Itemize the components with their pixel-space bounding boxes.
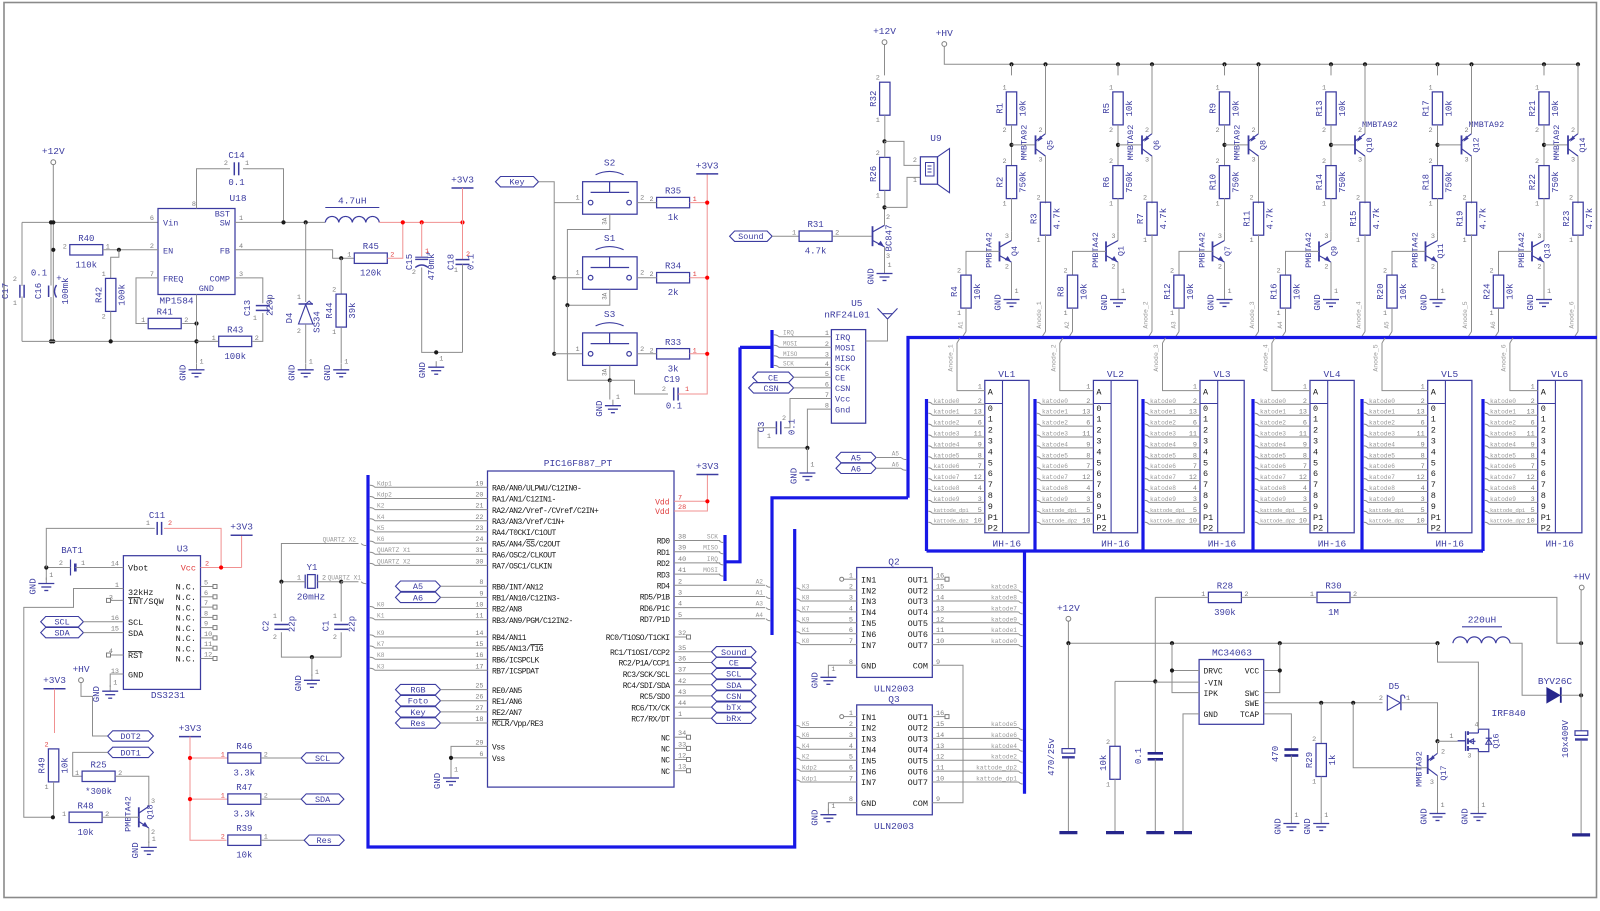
svg-text:Q10: Q10: [1365, 137, 1375, 152]
wire BYV26C to +HV node: [1561, 694, 1581, 696]
capacitor C1 22p: [334, 624, 348, 626]
wire katode4 to VL1: [928, 446, 932, 448]
wire net QUARTZ X2 from bus to pin 30: [370, 563, 375, 565]
wire C3 to gnd node: [758, 428, 807, 448]
svg-text:0: 0: [1096, 404, 1101, 414]
svg-text:0: 0: [1313, 404, 1318, 414]
svg-text:katode3: katode3: [1260, 431, 1286, 438]
ground under PIC: [450, 772, 452, 778]
svg-text:2: 2: [45, 741, 49, 749]
svg-text:1: 1: [1294, 812, 1298, 820]
resistor R12: [1174, 275, 1184, 308]
svg-text:Vcc: Vcc: [181, 564, 196, 574]
power port +12V (sound): [882, 40, 887, 45]
svg-text:1: 1: [1356, 237, 1360, 245]
svg-text:GND: GND: [131, 842, 141, 858]
svg-text:4: 4: [1313, 447, 1318, 457]
wire katode9 to VL6: [1485, 500, 1489, 502]
svg-text:1: 1: [1535, 84, 1539, 92]
svg-text:R16: R16: [1270, 283, 1280, 299]
svg-text:+HV: +HV: [936, 28, 953, 39]
svg-text:100k: 100k: [224, 352, 246, 362]
node +12V input rail wire: [22, 221, 158, 223]
svg-text:RC1/T1OSI/CCP2: RC1/T1OSI/CCP2: [610, 649, 670, 658]
junction +12V/L2: [1435, 641, 1439, 645]
svg-text:12: 12: [974, 474, 982, 482]
junction HV rail col 3: [1222, 62, 1226, 66]
junction HV rail emitter col 5: [1469, 62, 1473, 66]
resistor R14: [1326, 166, 1336, 199]
svg-text:1: 1: [49, 572, 53, 580]
net tag SCL (RTC): [41, 617, 84, 627]
svg-text:RC2/P1A/CCP1: RC2/P1A/CCP1: [618, 660, 670, 669]
svg-text:P2: P2: [1431, 524, 1441, 534]
svg-text:ИН-16: ИН-16: [1318, 539, 1347, 550]
resistor R9: [1219, 92, 1229, 125]
resistor R39: [228, 835, 261, 845]
svg-text:RB1/AN10/C12IN3-: RB1/AN10/C12IN3-: [492, 595, 560, 604]
svg-text:RB0/INT/AN12: RB0/INT/AN12: [492, 583, 544, 592]
svg-text:P1: P1: [1541, 513, 1551, 523]
wire Q3 OUT7 to kattode_dp1: [932, 781, 1018, 783]
junction +12V/DRVC: [1170, 641, 1174, 645]
svg-text:katode0: katode0: [1260, 398, 1286, 405]
wire Sound to R31: [772, 235, 799, 237]
wire katode6 to VL6: [1485, 468, 1489, 470]
svg-text:*300k: *300k: [85, 787, 112, 797]
wire katode6 to VL5: [1364, 468, 1368, 470]
svg-text:2: 2: [102, 313, 106, 321]
svg-text:9: 9: [1096, 502, 1101, 512]
svg-text:4: 4: [1541, 447, 1546, 457]
wire DRVC/IPK to +12V: [1172, 643, 1199, 670]
svg-text:1: 1: [315, 669, 319, 677]
svg-text:2: 2: [1537, 264, 1541, 272]
svg-text:kattode_dp2: kattode_dp2: [1150, 518, 1186, 525]
svg-text:MMBTA92: MMBTA92: [1469, 120, 1505, 130]
svg-text:katode6: katode6: [1150, 463, 1176, 470]
svg-text:R15: R15: [1349, 211, 1359, 227]
svg-text:kattode_dp1: kattode_dp1: [976, 776, 1017, 783]
wire katode7 to VL3: [1145, 479, 1149, 481]
svg-text:Q14: Q14: [1578, 137, 1588, 152]
svg-text:1: 1: [831, 803, 835, 811]
wire net Kdp1 from bus to pin 19: [370, 485, 375, 487]
svg-text:VL6: VL6: [1551, 369, 1568, 380]
svg-text:P2: P2: [1541, 524, 1551, 534]
resistor R29: [1316, 744, 1326, 777]
svg-text:1: 1: [1441, 802, 1445, 810]
wire K1 to Q2 IN6: [797, 632, 801, 634]
svg-text:PIC16F887_PT: PIC16F887_PT: [544, 458, 613, 469]
svg-text:1: 1: [1193, 384, 1197, 392]
svg-text:GND: GND: [323, 365, 333, 381]
wire: [190, 737, 227, 841]
svg-text:Q9: Q9: [1330, 246, 1340, 256]
wire K0 to Q2 IN7: [797, 643, 801, 645]
net tag SDA (pullup): [301, 794, 344, 804]
svg-text:ИН-16: ИН-16: [1545, 539, 1574, 550]
svg-text:R10: R10: [1209, 174, 1219, 190]
wire R31 to BC847 base: [833, 235, 872, 237]
svg-text:katode9: katode9: [1150, 496, 1176, 503]
svg-text:VL1: VL1: [998, 369, 1015, 380]
wire katode5 to VL3: [1145, 457, 1149, 459]
svg-text:1: 1: [957, 310, 961, 318]
transistor Q14 MMBTA92 pnp: [1567, 135, 1569, 154]
svg-text:SWC: SWC: [1245, 690, 1260, 699]
svg-text:2: 2: [1002, 158, 1006, 166]
svg-text:P2: P2: [1203, 524, 1213, 534]
wire CE to U5: [794, 376, 832, 378]
junction feedback/+HV: [1579, 641, 1583, 645]
ground col 1: [1011, 294, 1013, 300]
svg-text:RB5/AN13/T1G: RB5/AN13/T1G: [492, 645, 544, 654]
wire HV to R17: [1437, 64, 1439, 75]
wire katode8 to VL5: [1364, 490, 1368, 492]
svg-text:Q7: Q7: [1223, 246, 1233, 256]
net tag DOT2: [108, 731, 154, 741]
svg-text:2: 2: [466, 251, 470, 259]
wire katode3 to VL3: [1145, 435, 1149, 437]
wire U18 gnd pin down: [196, 295, 198, 364]
svg-text:Q6: Q6: [1152, 140, 1162, 150]
wire katode5 to VL4: [1255, 457, 1259, 459]
wire R19 to bus (Anode_5): [1471, 234, 1473, 331]
svg-text:1: 1: [1121, 288, 1125, 296]
wire BC847 collector: [884, 207, 886, 225]
resistor R24: [1493, 275, 1503, 308]
svg-text:2: 2: [988, 426, 993, 436]
svg-text:A3: A3: [756, 601, 764, 608]
svg-text:R21: R21: [1528, 100, 1538, 116]
svg-text:RD6/P1C: RD6/P1C: [640, 605, 671, 614]
svg-text:3: 3: [1324, 233, 1328, 241]
wire quartz X1 net: [341, 581, 358, 583]
wire Q7 emitter to gnd: [1224, 262, 1226, 296]
svg-text:5: 5: [988, 458, 993, 468]
nixie tube VL3 IN-16 body: [1200, 380, 1244, 532]
wire: [54, 689, 56, 733]
inductor L1 4.7uH: [325, 216, 379, 222]
wire R4 to bus (A1): [965, 308, 967, 331]
svg-text:13: 13: [111, 668, 119, 676]
wire BAT1 to Vbot: [75, 567, 123, 569]
svg-text:P1: P1: [988, 513, 998, 523]
svg-text:MCLR/Vpp/RE3: MCLR/Vpp/RE3: [492, 720, 544, 729]
svg-text:6: 6: [1531, 420, 1535, 428]
wire gate node to Q16 gate: [1438, 740, 1458, 742]
svg-text:MMBTA92: MMBTA92: [1362, 120, 1398, 130]
wire Q2 OUT3 to katode8: [932, 600, 1018, 602]
transistor Q7 PMBTA42 npn: [1212, 241, 1214, 261]
svg-text:OUT6: OUT6: [908, 630, 928, 640]
ground bar under MC34063: [1174, 831, 1192, 834]
svg-text:1: 1: [1322, 84, 1326, 92]
svg-text:R14: R14: [1315, 174, 1325, 190]
svg-text:2: 2: [333, 634, 337, 642]
wire katode3 to VL4: [1255, 435, 1259, 437]
wire anode Anode_6 to VL6: [1510, 338, 1513, 343]
svg-text:1: 1: [1015, 288, 1019, 296]
svg-text:1: 1: [297, 294, 301, 302]
wire katode5 to VL5: [1364, 457, 1368, 459]
svg-text:Vdd: Vdd: [655, 508, 670, 517]
net tag Key (switch column): [496, 177, 539, 187]
svg-text:RC0/T1OSO/T1CKI: RC0/T1OSO/T1CKI: [606, 634, 670, 643]
transistor Q11 PMBTA42 npn: [1425, 241, 1427, 261]
wire Gnd pin8: [807, 409, 831, 448]
svg-text:katode8: katode8: [1042, 485, 1068, 492]
svg-text:220uH: 220uH: [1468, 615, 1497, 626]
svg-text:Q11: Q11: [1436, 243, 1446, 258]
svg-text:1: 1: [616, 394, 620, 402]
svg-text:bRx: bRx: [726, 714, 741, 724]
svg-text:R47: R47: [236, 783, 252, 793]
resistor R11: [1253, 202, 1263, 235]
svg-text:+3V3: +3V3: [451, 175, 474, 186]
wire COMP to C13: [235, 278, 263, 303]
resistor R31: [799, 231, 832, 241]
svg-text:9: 9: [1303, 441, 1307, 449]
wire Q3 OUT6 to kattode_dp2: [932, 770, 1018, 772]
resistor R17: [1432, 92, 1442, 125]
svg-text:6: 6: [204, 590, 208, 598]
resistor R3: [1040, 202, 1050, 235]
ground under R44: [340, 364, 342, 370]
svg-text:Kdp2: Kdp2: [802, 765, 817, 772]
svg-text:A6: A6: [851, 464, 861, 474]
wire MC34063 GND: [1183, 714, 1199, 832]
diode D5: [1387, 695, 1400, 710]
svg-text:CE: CE: [768, 373, 778, 383]
svg-text:1: 1: [245, 160, 249, 168]
svg-text:1: 1: [913, 177, 917, 185]
svg-text:3: 3: [1467, 753, 1471, 761]
svg-text:1: 1: [253, 315, 257, 323]
resistor R46: [228, 753, 261, 763]
svg-text:1: 1: [75, 770, 79, 778]
svg-text:GND: GND: [418, 362, 428, 378]
svg-text:R44: R44: [325, 302, 335, 318]
svg-text:katode1: katode1: [1490, 409, 1516, 416]
svg-text:SCL: SCL: [315, 754, 330, 764]
ground under Q2: [827, 671, 829, 677]
wire HV to R9: [1224, 64, 1226, 75]
svg-text:nRF24L01: nRF24L01: [824, 310, 870, 321]
resistor R2: [1006, 166, 1016, 199]
svg-text:R4: R4: [950, 286, 960, 297]
svg-text:Anode_3: Anode_3: [1249, 301, 1256, 328]
resistor R41: [148, 318, 181, 328]
wire katode6 to VL3: [1145, 468, 1149, 470]
wire kattode_dp1 to VL2: [1037, 511, 1041, 513]
svg-text:2: 2: [1276, 268, 1280, 276]
svg-text:+HV: +HV: [72, 664, 89, 675]
svg-text:2: 2: [662, 386, 666, 394]
svg-text:CE: CE: [729, 659, 739, 669]
svg-text:BAT1: BAT1: [61, 546, 83, 556]
svg-text:1: 1: [1383, 310, 1387, 318]
wire net IRQ pin 40 to SPI bus: [674, 562, 720, 564]
wire Q3 OUT3 to katode6: [932, 737, 1018, 739]
wire katode0 to VL1: [928, 402, 932, 404]
svg-text:IN2: IN2: [861, 724, 876, 734]
svg-text:K1: K1: [802, 627, 810, 634]
transistor Q9 PMBTA42 npn: [1318, 241, 1320, 261]
svg-text:1: 1: [1541, 415, 1546, 425]
junction switch commons: [608, 378, 612, 382]
svg-text:1: 1: [876, 117, 880, 125]
svg-text:7: 7: [1541, 480, 1546, 490]
svg-text:IN6: IN6: [861, 767, 876, 777]
mcu U1 PIC16F887_PT ic body: [488, 471, 675, 787]
svg-text:1: 1: [221, 752, 225, 760]
svg-text:13: 13: [974, 409, 982, 417]
svg-text:1: 1: [1109, 84, 1113, 92]
svg-text:2: 2: [1215, 127, 1219, 135]
wire net A1 pin 3 to A bus: [674, 596, 765, 598]
nixie tube VL1 IN-16 body: [985, 380, 1029, 532]
resistor R15: [1360, 202, 1370, 235]
wire net K0 from bus to pin 10: [370, 607, 375, 609]
svg-text:Q5: Q5: [1046, 140, 1056, 150]
svg-text:2: 2: [876, 75, 880, 83]
svg-text:4.7k: 4.7k: [1159, 208, 1169, 230]
wire katode9 to VL1: [928, 500, 932, 502]
svg-text:10k: 10k: [77, 828, 93, 838]
junction R26/BC847/speaker: [882, 205, 886, 209]
wire net K5 from bus to pin 23: [370, 530, 375, 532]
svg-text:5: 5: [1193, 507, 1197, 515]
svg-text:P2: P2: [988, 524, 998, 534]
svg-text:1: 1: [81, 560, 85, 568]
svg-text:1: 1: [454, 267, 458, 275]
svg-text:R12: R12: [1163, 283, 1173, 299]
svg-text:Y1: Y1: [307, 563, 318, 573]
wire kattode_dp2 to VL3: [1145, 522, 1149, 524]
svg-text:+3V3: +3V3: [696, 461, 719, 472]
svg-text:A: A: [988, 388, 994, 398]
svg-text:IN7: IN7: [861, 641, 876, 651]
svg-text:2k: 2k: [668, 288, 679, 298]
capacitor C3 0.1: [775, 421, 777, 434]
nixie tube VL2 IN-16 body: [1093, 380, 1137, 532]
svg-text:katode7: katode7: [1260, 474, 1286, 481]
net tag SDA at pin 42: [674, 684, 712, 686]
svg-text:katode6: katode6: [1260, 463, 1286, 470]
svg-text:3.3k: 3.3k: [233, 769, 255, 779]
svg-text:S1: S1: [604, 233, 616, 244]
resistor R7: [1147, 202, 1157, 235]
ground col 6: [1543, 294, 1545, 300]
svg-text:120k: 120k: [360, 269, 382, 279]
svg-text:OUT6: OUT6: [908, 767, 928, 777]
wire base feed R20: [1392, 251, 1426, 275]
wire Q3 IN1 nc stub: [844, 716, 857, 718]
wire Q2 OUT5 to katode9: [932, 622, 1018, 624]
svg-text:+3V3: +3V3: [230, 522, 253, 533]
svg-text:K3: K3: [802, 584, 810, 591]
transistor BC847 npn: [872, 226, 874, 246]
svg-text:Kdp1: Kdp1: [377, 480, 392, 487]
svg-text:C11: C11: [149, 511, 165, 521]
svg-text:R13: R13: [1315, 100, 1325, 116]
svg-text:Q18: Q18: [146, 804, 156, 819]
wire R41 to gnd node: [182, 323, 196, 325]
wire speaker pin1: [885, 177, 921, 207]
ground under U5: [806, 467, 808, 473]
svg-text:kattode_dp2: kattode_dp2: [976, 765, 1017, 772]
wire Q9 emitter to gnd: [1330, 262, 1332, 296]
svg-text:20mHz: 20mHz: [297, 592, 326, 603]
wire Q8 emitter to rail: [1258, 64, 1260, 133]
wire R21 to base node: [1543, 125, 1545, 166]
svg-text:470: 470: [1271, 746, 1281, 762]
net tag A5: [396, 581, 441, 591]
wire C2 to gnd rail: [281, 632, 341, 657]
svg-text:A5: A5: [413, 582, 423, 592]
svg-text:+3V3: +3V3: [696, 160, 719, 171]
wire katode1 to VL3: [1145, 413, 1149, 415]
svg-text:5: 5: [1313, 458, 1318, 468]
svg-text:11: 11: [1299, 431, 1307, 439]
svg-text:IN6: IN6: [861, 630, 876, 640]
svg-text:OUT1: OUT1: [908, 575, 928, 585]
svg-text:1: 1: [1036, 237, 1040, 245]
wire Q8 collector to R11: [1258, 156, 1260, 203]
wire base feed R16: [1286, 251, 1320, 275]
svg-text:OUT4: OUT4: [908, 608, 928, 618]
svg-text:1: 1: [576, 346, 580, 354]
resistor R32: [880, 82, 890, 115]
junction +12V/470cap: [1066, 641, 1070, 645]
nixie tube VL4 IN-16 body: [1310, 380, 1354, 532]
wire feedback row: [1155, 596, 1208, 598]
wire katode8 to VL4: [1255, 490, 1259, 492]
wire katode2 to VL5: [1364, 424, 1368, 426]
svg-text:1: 1: [347, 252, 351, 260]
svg-text:3: 3: [978, 496, 982, 504]
svg-text:5: 5: [978, 507, 982, 515]
svg-text:katode3: katode3: [1490, 431, 1516, 438]
svg-text:katode7: katode7: [1150, 474, 1176, 481]
svg-text:RA7/OSC1/CLKIN: RA7/OSC1/CLKIN: [492, 563, 552, 572]
svg-text:K8: K8: [377, 652, 385, 659]
capacitor C19: [673, 388, 675, 401]
svg-text:10: 10: [1527, 518, 1535, 526]
svg-text:1: 1: [1313, 415, 1318, 425]
ground bar under 10k: [1106, 831, 1124, 834]
net tag CE at pin 36: [674, 662, 712, 664]
junction 3V3/C15: [420, 220, 424, 224]
wire net A4 pin 5 to A bus: [674, 618, 765, 620]
wire Q11 emitter to gnd: [1437, 262, 1439, 296]
net tag SDA (RTC): [41, 627, 84, 637]
svg-text:Q1: Q1: [1117, 246, 1127, 256]
svg-text:9: 9: [1531, 441, 1535, 449]
wire katode4 to VL6: [1485, 446, 1489, 448]
svg-text:A4: A4: [1277, 321, 1284, 329]
wire +HV column: [1580, 590, 1582, 731]
svg-text:1k: 1k: [1328, 755, 1338, 766]
svg-text:10k: 10k: [1445, 100, 1455, 116]
svg-text:2: 2: [1531, 398, 1535, 406]
junction base node Q5: [1009, 143, 1013, 147]
svg-text:U5: U5: [851, 298, 863, 309]
svg-text:katode2: katode2: [1260, 420, 1286, 427]
svg-text:A: A: [1203, 388, 1209, 398]
